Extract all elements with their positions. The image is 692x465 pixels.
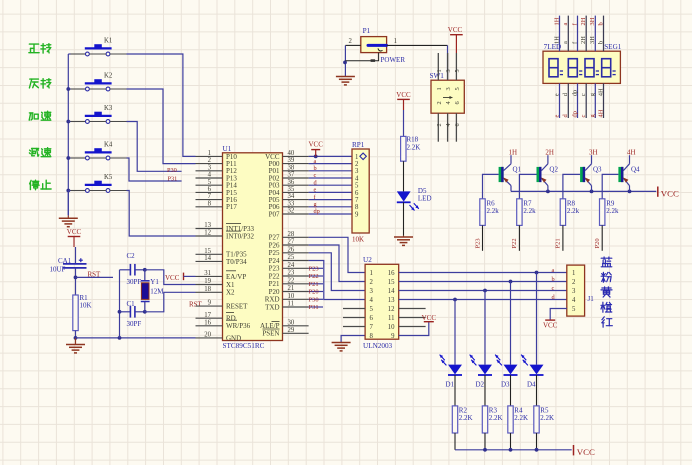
capacitor C2 30PF	[120, 252, 145, 286]
svg-text:VCC: VCC	[448, 26, 463, 34]
svg-text:b: b	[314, 165, 317, 172]
svg-text:26: 26	[288, 246, 295, 253]
net label dp	[314, 208, 320, 215]
wire R8 to net P21	[562, 225, 564, 250]
svg-text:39: 39	[288, 157, 295, 164]
svg-text:8: 8	[208, 200, 212, 207]
wire Q4 base to R	[602, 174, 618, 198]
wire R3 to rail	[484, 433, 486, 450]
display 7LED SEG1 body	[543, 43, 622, 84]
wire net 2H (Q2 emitter)	[545, 148, 554, 156]
svg-text:Q1: Q1	[513, 165, 522, 173]
svg-text:K4: K4	[104, 142, 113, 149]
svg-text:P21: P21	[555, 238, 562, 248]
svg-text:WR/P36: WR/P36	[226, 322, 251, 330]
switch SW1 body	[430, 53, 465, 142]
net label e	[314, 187, 317, 194]
svg-text:2.2k: 2.2k	[606, 207, 619, 215]
svg-text:3: 3	[355, 168, 359, 175]
svg-text:2.2K: 2.2K	[514, 414, 528, 422]
ground R1	[66, 338, 85, 353]
wire net 4H (Q4 emitter)	[627, 148, 636, 156]
net label P22 (rotated)	[511, 238, 518, 248]
svg-text:24: 24	[288, 262, 295, 269]
svg-text:b: b	[597, 41, 604, 44]
wire net to D1 column	[454, 300, 456, 365]
LED D4	[521, 355, 543, 389]
svg-text:TXD: TXD	[265, 303, 279, 311]
svg-text:34: 34	[288, 193, 295, 200]
svg-text:31: 31	[204, 270, 211, 277]
svg-text:29: 29	[288, 327, 295, 334]
svg-text:P22: P22	[269, 272, 280, 280]
svg-text:X2: X2	[226, 289, 235, 297]
svg-text:30: 30	[288, 319, 295, 326]
net label a	[314, 158, 317, 165]
net label P22	[309, 273, 319, 280]
svg-text:P31: P31	[168, 175, 178, 182]
wire K3 net P30	[110, 122, 182, 172]
wire R2 to rail	[454, 433, 456, 450]
wire VCC to CA1	[75, 247, 77, 263]
net label P30 (K3)	[167, 167, 177, 174]
wire Q2 base to R	[519, 174, 536, 198]
net label P31 (K4)	[168, 175, 178, 182]
svg-text:VCC: VCC	[577, 447, 595, 457]
wire D5 to ground	[403, 202, 405, 235]
wire D3 to R4	[510, 375, 512, 406]
svg-text:2: 2	[572, 279, 576, 286]
connector J1 body	[567, 265, 594, 316]
svg-text:b: b	[597, 22, 604, 25]
net label f	[314, 194, 317, 201]
transistor Q4	[618, 155, 640, 191]
wire net to D2 column	[484, 291, 486, 365]
wire net P21 stub	[309, 283, 323, 285]
svg-text:a: a	[562, 41, 569, 44]
resistor R1 10K	[73, 294, 92, 331]
net label P20	[309, 289, 319, 296]
wire crystal to X1	[145, 270, 196, 285]
svg-text:b: b	[552, 276, 555, 283]
svg-text:16: 16	[388, 270, 395, 277]
svg-text:10K: 10K	[352, 236, 364, 244]
net label P23 (rotated)	[474, 238, 481, 248]
svg-text:c: c	[580, 93, 587, 96]
wire U2 pin9 to VCC	[399, 322, 429, 336]
svg-text:36: 36	[288, 179, 295, 186]
power VCC (EA/VP pin31)	[165, 273, 196, 283]
svg-text:Y1: Y1	[150, 278, 159, 286]
svg-text:6: 6	[208, 186, 212, 193]
wire net 1H (Q1 emitter)	[509, 148, 518, 156]
ground button bus	[59, 191, 78, 227]
svg-text:8: 8	[355, 204, 359, 211]
wire net to D3 column	[510, 282, 512, 365]
power VCC (transistor rail)	[658, 187, 679, 199]
svg-text:2H: 2H	[580, 17, 587, 25]
wire left button bus vertical	[67, 54, 69, 215]
svg-text:7: 7	[208, 193, 212, 200]
svg-text:VCC: VCC	[661, 188, 679, 198]
svg-text:14: 14	[204, 255, 211, 262]
svg-text:P07: P07	[269, 210, 280, 218]
svg-text:5: 5	[370, 306, 374, 313]
wire net P20 stub	[309, 291, 323, 293]
svg-text:6: 6	[370, 315, 374, 322]
svg-text:2: 2	[436, 123, 443, 126]
transistor Q1	[499, 155, 522, 191]
svg-text:2.2K: 2.2K	[540, 414, 554, 422]
svg-text:13: 13	[204, 222, 211, 229]
svg-text:15: 15	[388, 279, 395, 286]
transistor Q2	[537, 155, 559, 191]
svg-text:P23: P23	[474, 238, 481, 248]
wire net RST	[76, 276, 114, 278]
svg-text:D4: D4	[527, 380, 536, 388]
wire R18 to D5	[403, 161, 405, 191]
pushbutton K2	[85, 73, 113, 91]
label chinese color column	[601, 257, 612, 327]
svg-text:dp: dp	[571, 111, 578, 117]
driver U2 ULN2003 body	[363, 256, 399, 350]
svg-text:3: 3	[445, 87, 452, 90]
wire Q3 base to R	[563, 174, 580, 198]
svg-text:1H: 1H	[509, 148, 518, 156]
svg-text:30PF: 30PF	[127, 320, 142, 328]
svg-text:2H: 2H	[545, 148, 554, 156]
transistor Q3	[580, 155, 602, 191]
wire K1 to U1 pin1	[110, 54, 196, 156]
svg-text:RP1: RP1	[352, 141, 365, 149]
wire U1 P26 to U2 pin2	[309, 245, 366, 282]
net label RST	[88, 270, 102, 278]
svg-text:T0/P34: T0/P34	[226, 258, 247, 266]
svg-text:SEG1: SEG1	[604, 43, 622, 51]
P1 pin 1	[387, 38, 448, 45]
svg-text:4H: 4H	[597, 109, 604, 117]
svg-text:GND: GND	[226, 334, 241, 342]
svg-text:1: 1	[436, 87, 443, 90]
svg-text:D2: D2	[476, 380, 485, 388]
net label P21	[309, 281, 319, 288]
svg-text:10: 10	[388, 324, 395, 331]
wire net e U1 to RP1	[309, 191, 352, 193]
svg-text:4: 4	[208, 172, 212, 179]
power VCC (R18)	[396, 91, 411, 110]
wire D2 to R3	[484, 375, 486, 406]
wire D1 to R2	[454, 375, 456, 406]
svg-text:2: 2	[355, 161, 359, 168]
svg-text:K3: K3	[104, 105, 113, 112]
wire R4 to rail	[510, 433, 512, 450]
svg-text:7: 7	[355, 197, 359, 204]
svg-text:INT0/P32: INT0/P32	[226, 232, 255, 240]
svg-text:12: 12	[204, 230, 211, 237]
wire net to D4 column	[536, 273, 538, 365]
wire U1 P24 to U2 pin4	[309, 261, 366, 300]
wire net d U1 to RP1	[309, 184, 352, 186]
wire net c U1 to RP1	[309, 177, 352, 179]
svg-text:33: 33	[288, 200, 295, 207]
wire U1 pin40 VCC to RP1 pin1	[309, 155, 352, 159]
svg-text:37: 37	[288, 172, 295, 179]
svg-text:1: 1	[394, 38, 397, 45]
svg-text:P26: P26	[269, 241, 280, 249]
resistor R8 2.2k	[560, 199, 579, 226]
power VCC (reset cap)	[67, 228, 82, 247]
resistor R5 2.2K	[534, 406, 554, 433]
capacitor C1 30PF	[120, 300, 145, 328]
net label b (J1)	[552, 276, 555, 283]
wire K2 to U1 pin2	[110, 89, 196, 164]
svg-text:13: 13	[388, 297, 395, 304]
net label a (J1)	[552, 267, 555, 274]
svg-text:Q2: Q2	[549, 165, 558, 173]
wire net f U1 to RP1	[309, 199, 352, 201]
wire Q1 base to R	[483, 174, 499, 198]
wire net P30 stub	[309, 298, 323, 300]
svg-text:1: 1	[572, 270, 575, 277]
svg-text:20: 20	[204, 332, 211, 339]
net label P23	[309, 266, 319, 273]
svg-text:2.2k: 2.2k	[523, 207, 536, 215]
svg-text:J1: J1	[588, 295, 595, 303]
net label P20 (rotated)	[594, 238, 601, 248]
svg-text:9: 9	[355, 211, 359, 218]
label chinese K3	[29, 111, 51, 120]
svg-text:e: e	[553, 115, 560, 118]
svg-text:1H: 1H	[553, 17, 560, 25]
LED D1	[440, 355, 462, 389]
svg-text:10UF: 10UF	[50, 265, 66, 273]
svg-text:3: 3	[572, 288, 576, 295]
svg-text:11: 11	[388, 315, 395, 322]
svg-text:RST: RST	[189, 301, 203, 309]
svg-text:P31: P31	[309, 304, 319, 311]
svg-text:Q4: Q4	[631, 165, 640, 173]
svg-text:22: 22	[288, 277, 295, 284]
svg-text:28: 28	[288, 231, 295, 238]
svg-text:P20: P20	[269, 288, 280, 296]
wire bottom VCC rail	[455, 448, 572, 452]
svg-text:D3: D3	[501, 380, 510, 388]
svg-text:VCC: VCC	[543, 322, 558, 330]
P1 pin 2	[345, 38, 360, 45]
svg-text:STC89C51RC: STC89C51RC	[223, 342, 265, 350]
wire net P23 stub	[309, 267, 323, 269]
svg-text:18: 18	[204, 286, 211, 293]
svg-text:2.2K: 2.2K	[459, 414, 473, 422]
svg-text:10K: 10K	[80, 302, 92, 310]
svg-text:dp: dp	[314, 208, 320, 215]
label chinese K2	[29, 79, 50, 88]
svg-text:5: 5	[454, 87, 461, 90]
net label RST (pin9)	[189, 301, 203, 309]
svg-text:POWER: POWER	[381, 56, 406, 64]
svg-text:1: 1	[370, 270, 373, 277]
LED D5	[397, 187, 432, 211]
svg-text:11: 11	[288, 301, 295, 308]
svg-text:P22: P22	[511, 238, 518, 248]
svg-text:PSEN: PSEN	[262, 330, 279, 338]
pushbutton K5	[85, 174, 113, 192]
svg-text:3H: 3H	[589, 148, 598, 156]
wire P1 pin2 down	[343, 45, 347, 76]
wire net c U2 to J1	[399, 289, 567, 293]
wire U1 P27 to U2 pin1	[309, 237, 366, 272]
wire net d U2 to J1	[399, 298, 567, 302]
svg-text:32: 32	[288, 208, 295, 215]
svg-text:c: c	[314, 172, 317, 179]
svg-text:X1: X1	[226, 281, 235, 289]
svg-text:P22: P22	[309, 273, 319, 280]
svg-text:12: 12	[388, 306, 395, 313]
node bus junction K1	[68, 53, 85, 55]
svg-text:e: e	[553, 93, 560, 96]
wire transistor collector rail to VCC	[511, 190, 656, 194]
svg-text:3: 3	[370, 288, 374, 295]
node bus junction K3	[66, 120, 85, 124]
wire net 3H (Q3 emitter)	[589, 148, 598, 156]
svg-text:P30: P30	[309, 297, 319, 304]
svg-text:3: 3	[208, 164, 212, 171]
resistor R4 2.2K	[508, 406, 528, 433]
U2 pin numbers	[370, 270, 396, 340]
net label P31	[309, 304, 319, 311]
svg-text:EA/VP: EA/VP	[226, 273, 246, 281]
svg-text:10: 10	[288, 293, 295, 300]
net label c	[314, 172, 317, 179]
label chinese K4	[29, 148, 50, 157]
svg-text:1H: 1H	[553, 36, 560, 44]
svg-text:U2: U2	[363, 256, 372, 264]
svg-text:VCC: VCC	[67, 228, 82, 236]
svg-text:9: 9	[391, 333, 395, 340]
svg-text:C1: C1	[127, 300, 136, 308]
svg-text:c: c	[552, 285, 555, 292]
resistor R6 2.2k	[480, 199, 499, 226]
svg-text:3H: 3H	[589, 17, 596, 25]
svg-text:14: 14	[388, 288, 395, 295]
wire CA1 to R1 / RST node	[74, 268, 78, 295]
svg-text:3H: 3H	[589, 36, 596, 44]
svg-text:1: 1	[355, 154, 358, 161]
wire P1 pin1 to SW1	[447, 45, 449, 80]
svg-text:P20: P20	[309, 289, 319, 296]
svg-text:P21: P21	[309, 281, 319, 288]
U2 right stub pins 12,11,10	[399, 309, 426, 327]
svg-text:17: 17	[204, 312, 211, 319]
svg-text:25: 25	[288, 254, 295, 261]
crystal Y1 12M	[141, 268, 165, 314]
svg-text:P24: P24	[269, 257, 280, 265]
wire K5 to U1 pin12	[110, 191, 196, 237]
svg-text:LED: LED	[418, 195, 432, 203]
display bottom pins	[553, 83, 604, 118]
svg-text:5: 5	[355, 183, 359, 190]
wire net b U1 to RP1	[309, 170, 352, 172]
MCU U1 STC89C51RC body	[223, 145, 283, 350]
svg-text:CA1: CA1	[58, 257, 72, 265]
svg-text:K2: K2	[104, 73, 113, 80]
net label d	[314, 179, 318, 186]
svg-text:3: 3	[445, 69, 452, 72]
power VCC (SW1)	[448, 26, 463, 53]
pushbutton K4	[85, 142, 113, 160]
resistor R9 2.2k	[600, 199, 619, 226]
LED D3	[495, 355, 517, 389]
svg-text:35: 35	[288, 186, 295, 193]
svg-text:4: 4	[572, 297, 576, 304]
svg-text:6: 6	[454, 123, 461, 126]
resistor R2 2.2K	[452, 406, 472, 433]
wire net P31 stub	[309, 306, 323, 308]
label chinese K5	[30, 180, 51, 190]
svg-text:5: 5	[208, 179, 212, 186]
ground (P1)	[336, 77, 355, 85]
U1 left pins	[196, 150, 255, 342]
net label d (J1)	[552, 294, 556, 301]
svg-text:a: a	[562, 23, 569, 26]
wire J1 pin5 to VCC	[550, 309, 567, 321]
svg-text:7: 7	[370, 324, 374, 331]
display top pins	[553, 16, 604, 52]
svg-text:21: 21	[288, 285, 295, 292]
svg-text:30PF: 30PF	[127, 278, 142, 286]
wire net a U2 to J1	[399, 271, 567, 275]
svg-text:2: 2	[370, 279, 374, 286]
svg-text:P20: P20	[594, 238, 601, 248]
wire U2 pin8 to ground	[341, 336, 365, 343]
wire net g U1 to RP1	[309, 206, 352, 208]
svg-text:5: 5	[454, 69, 461, 72]
svg-text:VCC: VCC	[396, 91, 411, 99]
svg-text:D1: D1	[446, 380, 455, 388]
svg-text:Q3: Q3	[593, 165, 602, 173]
svg-text:ULN2003: ULN2003	[363, 342, 393, 350]
svg-text:12M: 12M	[150, 288, 164, 296]
capacitor CA1 10UF	[50, 257, 87, 273]
wire net a U1 to RP1	[309, 163, 352, 165]
svg-text:P23: P23	[309, 266, 319, 273]
svg-text:5: 5	[572, 306, 576, 313]
power VCC (J1 pin5, inverted)	[543, 320, 558, 330]
ground (D5)	[394, 236, 413, 246]
svg-text:U1: U1	[223, 145, 232, 153]
svg-text:2: 2	[436, 101, 443, 104]
wire crystal left vertical	[118, 270, 122, 338]
svg-text:c: c	[580, 115, 587, 118]
svg-text:2H: 2H	[580, 36, 587, 44]
node bus junction K5	[66, 189, 85, 193]
svg-text:1: 1	[436, 69, 443, 72]
svg-text:P30: P30	[167, 167, 177, 174]
wire R6 to net P23	[482, 225, 484, 250]
svg-text:2.2K: 2.2K	[407, 143, 421, 151]
svg-text:9: 9	[208, 300, 212, 307]
resistor R3 2.2K	[482, 406, 502, 433]
resistor R18 2.2K	[401, 136, 421, 162]
svg-text:C2: C2	[127, 252, 136, 260]
svg-text:4: 4	[370, 297, 374, 304]
node bus junction K4	[66, 156, 85, 160]
svg-text:dp: dp	[571, 90, 578, 96]
svg-text:K5: K5	[104, 174, 113, 181]
net label P21 (rotated)	[555, 238, 562, 248]
svg-text:P17: P17	[226, 203, 237, 211]
svg-text:19: 19	[204, 278, 211, 285]
